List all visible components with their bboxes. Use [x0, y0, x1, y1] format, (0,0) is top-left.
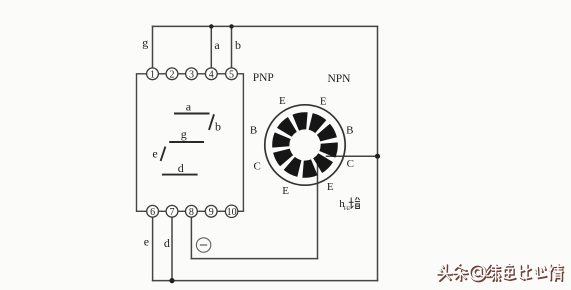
pin 4: [205, 68, 217, 81]
svg-text:a: a: [214, 38, 220, 52]
node junction b-bus: [229, 24, 233, 28]
svg-text:C: C: [254, 161, 261, 173]
svg-text:C: C: [347, 158, 354, 170]
segment a: [174, 113, 210, 115]
wire E socket down: [317, 165, 319, 259]
pin 5: [226, 68, 238, 81]
svg-text:E: E: [279, 95, 286, 107]
svg-text:5: 5: [229, 70, 234, 81]
svg-text:3: 3: [189, 70, 194, 81]
svg-text:NPN: NPN: [327, 73, 351, 85]
wire d from pin7: [171, 216, 173, 281]
pin 1: [147, 68, 159, 81]
pin 7: [166, 205, 178, 218]
svg-text:10: 10: [227, 207, 237, 218]
wire b to pin5: [231, 26, 233, 69]
svg-text:6: 6: [150, 207, 155, 218]
svg-text:a: a: [186, 100, 192, 114]
segment e: [161, 147, 166, 161]
svg-text:b: b: [215, 119, 221, 133]
svg-text:E: E: [282, 185, 289, 197]
svg-text:d: d: [164, 236, 170, 250]
wire C socket right: [327, 155, 378, 157]
svg-text:E: E: [320, 95, 327, 107]
segment d: [162, 174, 198, 176]
hanzi dang (range) approximated strokes: [349, 197, 360, 208]
pin 3: [186, 68, 198, 81]
wire a to pin4: [210, 26, 212, 69]
wire right bus: [377, 26, 379, 280]
svg-text:2: 2: [170, 70, 175, 81]
svg-text:9: 9: [209, 207, 214, 218]
pin 6: [147, 205, 159, 218]
wire bottom bus: [153, 280, 378, 282]
wire e from pin6: [152, 216, 154, 281]
svg-text:8: 8: [189, 207, 194, 218]
node junction C-bus: [375, 154, 380, 159]
svg-text:e: e: [152, 147, 157, 161]
wire g to pin1: [152, 26, 154, 69]
node junction bottom: [169, 278, 174, 283]
svg-text:e: e: [144, 235, 149, 249]
wire from pin8: [190, 216, 192, 259]
svg-text:E: E: [327, 181, 334, 193]
svg-text:1: 1: [150, 70, 155, 81]
display block U1 body: [137, 74, 244, 212]
svg-text:B: B: [346, 125, 353, 137]
svg-text:B: B: [250, 125, 257, 137]
svg-text:g: g: [142, 35, 148, 49]
svg-text:g: g: [181, 127, 187, 141]
label hFE range: [339, 197, 360, 212]
segment g: [169, 141, 204, 143]
pin 9: [205, 205, 217, 218]
svg-text:7: 7: [170, 207, 175, 218]
watermark toutiao@lvsebixinqing: [437, 264, 563, 282]
wire top bus: [153, 25, 378, 27]
negative terminal symbol: [196, 238, 210, 252]
hFE socket outer ring: [265, 105, 345, 185]
svg-text:PNP: PNP: [253, 72, 274, 84]
wire negative rail: [191, 258, 317, 260]
segment b: [209, 114, 214, 130]
node junction a-bus: [209, 24, 213, 28]
hFE socket contact wedges: [272, 112, 338, 178]
svg-text:b: b: [235, 38, 241, 52]
svg-text:FE: FE: [344, 206, 351, 212]
pin 8: [186, 205, 198, 218]
svg-text:d: d: [178, 161, 184, 175]
svg-text:4: 4: [209, 70, 214, 81]
pin 2: [166, 68, 178, 81]
pin 10: [225, 205, 237, 218]
